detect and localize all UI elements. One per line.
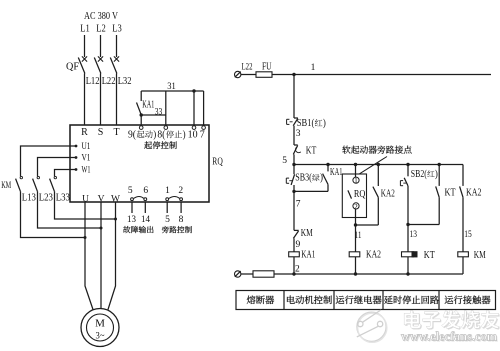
svg-text:KA2: KA2 [366, 250, 381, 261]
svg-text:KM: KM [474, 250, 486, 261]
svg-text:S: S [98, 127, 104, 138]
svg-text:KA1: KA1 [301, 250, 315, 261]
svg-text:RQ: RQ [354, 189, 366, 200]
svg-text:KA1: KA1 [330, 167, 343, 178]
svg-text:KA1: KA1 [142, 100, 154, 111]
svg-text:9(: 9( [128, 130, 137, 141]
svg-text:2: 2 [354, 204, 358, 211]
svg-text:L22: L22 [242, 63, 253, 73]
svg-text:L1: L1 [80, 24, 90, 35]
svg-text:1: 1 [354, 178, 358, 185]
svg-text:8(: 8( [157, 130, 166, 141]
svg-text:6: 6 [143, 186, 148, 196]
svg-text:5: 5 [165, 215, 170, 225]
svg-text:): ) [153, 130, 156, 141]
svg-text:31: 31 [167, 82, 176, 92]
svg-text:L33: L33 [56, 192, 70, 203]
svg-text:www.elecfans.com: www.elecfans.com [401, 330, 498, 344]
svg-text:10: 10 [188, 130, 198, 141]
svg-text:): ) [323, 118, 326, 129]
svg-text:L12: L12 [86, 76, 100, 87]
svg-text:L2: L2 [96, 24, 106, 35]
svg-text:M: M [95, 318, 105, 330]
svg-text:1: 1 [165, 186, 170, 196]
svg-text:13: 13 [127, 215, 136, 225]
svg-text:14: 14 [141, 215, 150, 225]
svg-text:): ) [183, 130, 186, 141]
svg-text:11: 11 [355, 231, 362, 241]
svg-text:8: 8 [179, 215, 184, 225]
svg-text:QF: QF [66, 62, 79, 73]
svg-text:T: T [113, 127, 119, 138]
svg-text:L22: L22 [102, 76, 116, 87]
svg-text:5: 5 [128, 186, 133, 196]
svg-text:KM: KM [301, 228, 313, 239]
svg-text:SB2(: SB2( [411, 169, 428, 180]
svg-text:RQ: RQ [212, 156, 223, 168]
svg-text:KT: KT [306, 146, 317, 157]
svg-text:V1: V1 [82, 154, 91, 164]
svg-text:L13: L13 [22, 192, 36, 203]
svg-text:2: 2 [178, 186, 183, 196]
svg-text:R: R [81, 127, 88, 138]
svg-text:SB3(: SB3( [295, 173, 312, 184]
svg-text:KM: KM [1, 180, 11, 190]
svg-text:9: 9 [296, 240, 301, 250]
svg-text:AC 380 V: AC 380 V [84, 11, 119, 22]
svg-text:33: 33 [155, 108, 163, 118]
svg-text:KA2: KA2 [381, 189, 395, 200]
svg-text:L32: L32 [118, 76, 132, 87]
svg-text:1: 1 [311, 63, 316, 73]
svg-text:7: 7 [296, 200, 301, 210]
svg-text:7: 7 [200, 130, 205, 141]
svg-text:L3: L3 [112, 24, 122, 35]
svg-text:15: 15 [464, 230, 472, 240]
svg-text:W1: W1 [82, 166, 91, 176]
svg-text:U1: U1 [82, 142, 91, 152]
svg-text:5: 5 [282, 156, 287, 166]
svg-text:): ) [435, 169, 438, 180]
svg-text:KT: KT [445, 188, 456, 199]
svg-text:L23: L23 [39, 192, 53, 203]
svg-text:3: 3 [296, 129, 301, 139]
svg-text:FU: FU [262, 62, 272, 73]
svg-text:SB1(: SB1( [297, 118, 315, 129]
svg-text:2: 2 [295, 265, 300, 275]
svg-text:KT: KT [424, 250, 435, 261]
svg-text:3~: 3~ [96, 332, 105, 342]
svg-text:13: 13 [410, 230, 418, 240]
svg-text:KA2: KA2 [466, 188, 482, 199]
